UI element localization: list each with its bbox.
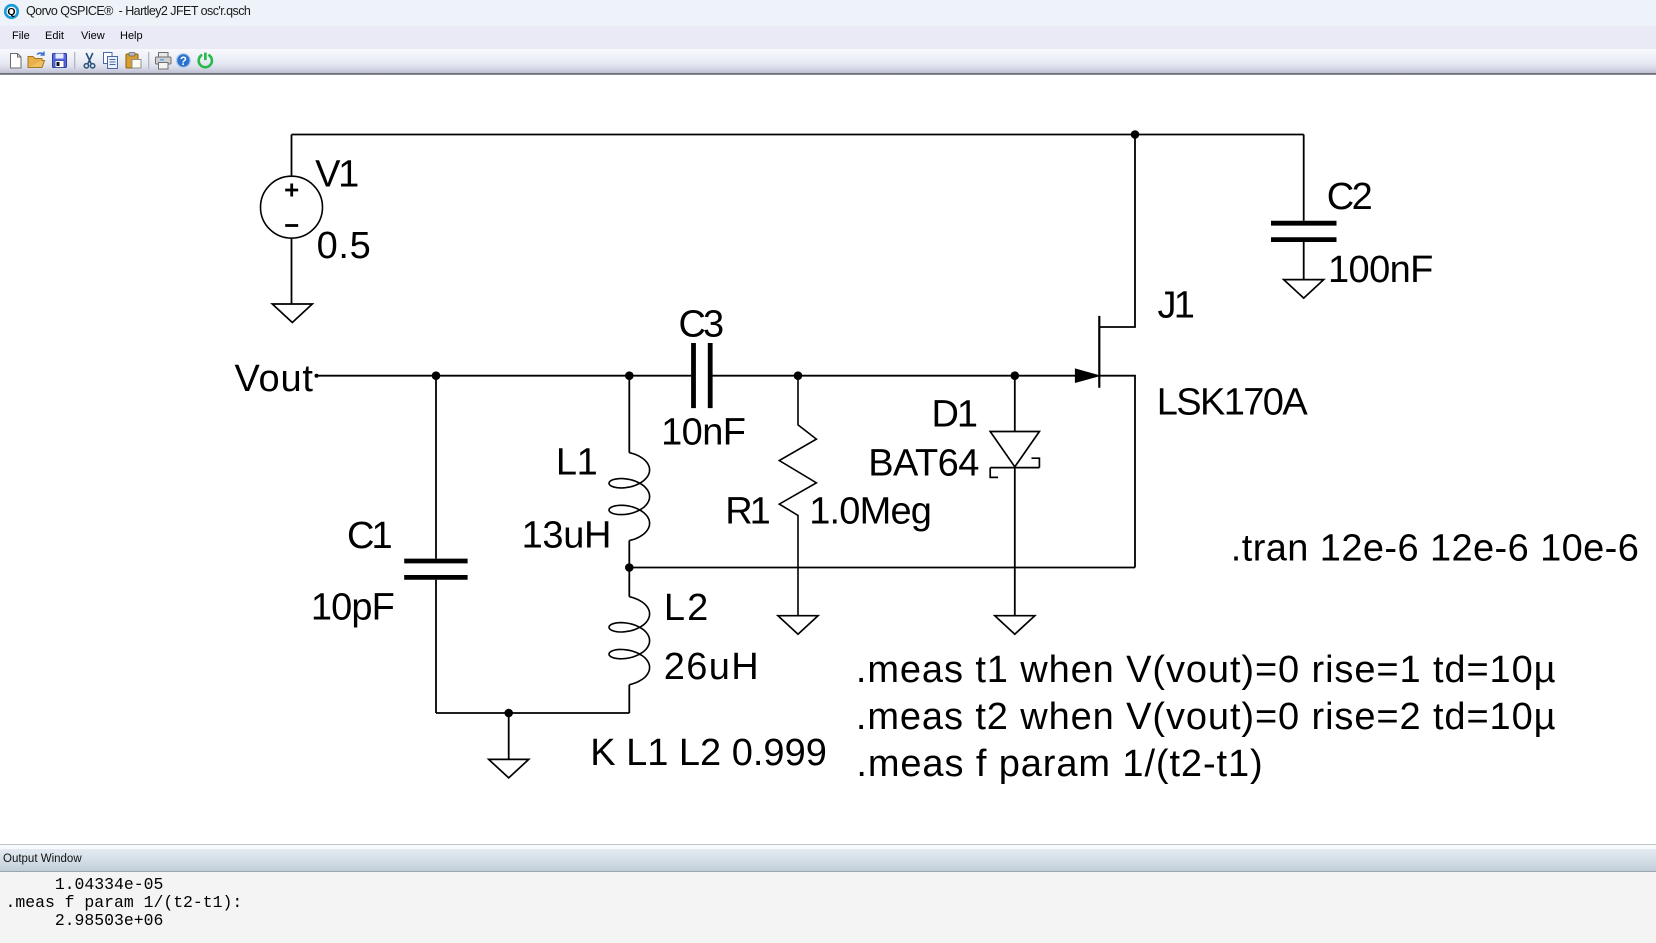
wire top rail [292, 134, 1304, 136]
wire L2 top lead [628, 568, 630, 597]
icon paste clipboard [126, 53, 141, 69]
svg-text:J1: J1 [1158, 285, 1194, 327]
toolbar icons [0, 49, 230, 73]
svg-text:V1: V1 [315, 154, 358, 196]
transistor J1 drain lead [1099, 135, 1135, 328]
wire L1 bottom lead [628, 541, 630, 568]
capacitor C2 [1271, 221, 1337, 226]
svg-text:100nF: 100nF [1328, 249, 1433, 291]
node L1 top [625, 371, 634, 380]
icon open folder [28, 52, 45, 68]
diode D1 triangle [990, 432, 1039, 467]
ground R1 [778, 616, 818, 635]
svg-text:1.0Meg: 1.0Meg [809, 490, 931, 532]
svg-text:.tran 12e-6 12e-6 10e-6: .tran 12e-6 12e-6 10e-6 [1231, 528, 1639, 570]
wire L1 top lead [628, 376, 630, 453]
svg-text:10pF: 10pF [311, 587, 394, 629]
capacitor C1 [404, 559, 467, 564]
transistor J1 gate arrow [1075, 369, 1099, 382]
svg-text:L1: L1 [556, 441, 597, 483]
node L1 L2 junction [625, 563, 634, 572]
icon print [156, 53, 172, 70]
svg-text:10nF: 10nF [661, 411, 745, 453]
svg-text:.meas t1 when V(vout)=0 rise=1: .meas t1 when V(vout)=0 rise=1 td=10µ [856, 649, 1557, 691]
wire C1 top lead [435, 376, 437, 559]
svg-text:Vout: Vout [235, 358, 314, 400]
node Vout anchor [315, 374, 319, 378]
icon cut scissors [84, 53, 95, 68]
transistor J1 channel bar [1098, 316, 1100, 388]
ground D1 [995, 616, 1035, 635]
node D1 top [1011, 371, 1020, 380]
svg-text:K L1 L2 0.999: K L1 L2 0.999 [590, 732, 827, 774]
icon copy [104, 53, 118, 69]
wire source bottom [629, 567, 1135, 569]
icon run [199, 53, 212, 68]
svg-text:L2: L2 [664, 587, 710, 629]
svg-text:D1: D1 [932, 394, 977, 436]
icon save floppy [53, 54, 67, 68]
diode D1 schottky bar [990, 458, 1039, 477]
svg-text:C2: C2 [1327, 176, 1372, 218]
svg-text:26uH: 26uH [664, 646, 760, 688]
icon new document [11, 54, 22, 69]
inductor L2 [609, 597, 650, 685]
svg-text:.meas t2 when V(vout)=0 rise=2: .meas t2 when V(vout)=0 rise=2 td=10µ [856, 696, 1557, 738]
resistor R1 [779, 376, 816, 616]
voltage source V1 [261, 176, 323, 238]
ground V1 [272, 304, 312, 323]
wire V1 bottom lead [291, 238, 293, 304]
node top rail junction [1131, 130, 1140, 139]
wire L2 bottom lead [628, 685, 630, 713]
wire bottom left [436, 712, 629, 714]
transistor J1 source lead [1099, 376, 1135, 568]
svg-text:C3: C3 [679, 304, 724, 346]
diode D1 anode lead [1014, 376, 1016, 432]
ground C2 [1284, 280, 1324, 299]
menu bar [0, 26, 1656, 49]
window title [26, 4, 250, 18]
icon help [177, 54, 190, 68]
wire C2 top lead [1303, 135, 1305, 221]
diode D1 cathode lead [1014, 467, 1016, 616]
wire C2 bottom lead [1303, 242, 1305, 280]
wire Vout net [317, 375, 692, 377]
svg-text:R1: R1 [725, 490, 769, 532]
svg-text:13uH: 13uH [522, 515, 612, 557]
capacitor C3 [691, 343, 696, 408]
svg-text:0.5: 0.5 [317, 225, 372, 267]
app icon Qorvo logo [3, 3, 20, 20]
wire C3 to gate [713, 375, 1077, 377]
wire V1 top lead [291, 135, 293, 177]
svg-text:BAT64: BAT64 [868, 443, 979, 485]
svg-text:.meas f param 1/(t2-t1): .meas f param 1/(t2-t1) [856, 743, 1263, 785]
ground bottom [489, 759, 529, 778]
node bottom gnd junction [504, 709, 513, 718]
inductor L1 [609, 453, 650, 541]
svg-text:C1: C1 [347, 515, 391, 557]
svg-text:LSK170A: LSK170A [1157, 382, 1309, 424]
node R1 top [794, 371, 803, 380]
wire C1 bottom lead [435, 580, 437, 713]
node C1 top [432, 371, 441, 380]
wire gnd stem [508, 713, 510, 759]
